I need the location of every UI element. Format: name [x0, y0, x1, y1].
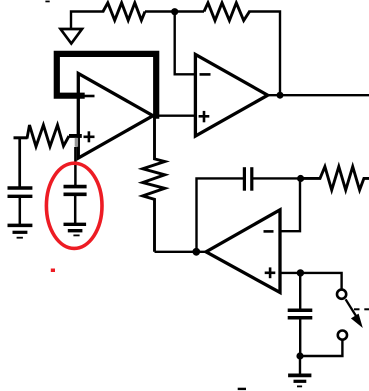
wire node A down to U2 inverting input: [175, 12, 195, 75]
wire U3 feedback (output up, across to C3): [197, 178, 244, 251]
wire U2 output to right edge: [268, 94, 369, 96]
switch dashed travel line: [354, 308, 369, 310]
node A junction dot: [171, 8, 178, 15]
input arrow (open triangle): [61, 29, 83, 44]
resistor R1: [103, 3, 145, 21]
capacitor C4: [288, 310, 313, 318]
U1 minus label: [83, 95, 95, 98]
red highlight ellipse: [46, 163, 102, 248]
resistor R4 left lead and tee: [14, 136, 28, 139]
switch S1 arm with arrowhead: [346, 299, 357, 317]
capacitor C2 (circled): [64, 187, 87, 195]
wire node E down to C4: [299, 273, 301, 310]
capacitor C1: [8, 188, 33, 196]
red stray mark: [51, 269, 55, 273]
wire R5 bottom to node C: [155, 251, 207, 253]
U3 plus label: [265, 267, 276, 278]
op-amp U2: [195, 54, 267, 136]
ground (circled): [64, 224, 87, 235]
wire C2 to ground: [74, 194, 77, 223]
wire R2 to U2 output node: [250, 12, 281, 96]
wire C4 to node F: [299, 318, 301, 356]
resistor R3: [301, 167, 369, 190]
node C (U3 output): [192, 248, 200, 256]
wire switch bottom to node F: [300, 340, 342, 356]
ground (bottom): [288, 375, 311, 386]
wire U3 plus input to node E: [280, 272, 300, 274]
wire C3 to node D: [253, 177, 301, 179]
wire plus node down to C2: [74, 147, 77, 187]
switch S1 top contact: [337, 290, 346, 299]
U1 plus label: [84, 131, 95, 142]
stray mark top-left: [45, 1, 49, 3]
thick feedback wire (U1 output to inverting input): [57, 54, 156, 116]
resistor R5 (vertical) with leads: [143, 116, 165, 252]
grey wire stub below plus input: [75, 138, 78, 147]
op-amp U1: [78, 73, 153, 158]
node F junction dot: [296, 352, 303, 359]
U2 minus label: [200, 73, 211, 76]
op-amp U3 (points left): [206, 210, 280, 293]
node B (U2 output): [277, 92, 284, 99]
U2 plus label: [199, 111, 210, 122]
wire input riser and top-left segment: [71, 12, 103, 30]
stray mark bottom: [238, 388, 246, 390]
junction blob at U1 plus input: [69, 134, 82, 138]
wire C1 to ground: [19, 196, 22, 224]
node D junction dot: [297, 175, 304, 182]
wire R1 to R2: [145, 10, 204, 12]
wire node F to ground: [299, 356, 301, 374]
U3 minus label: [264, 230, 274, 233]
switch S1 bottom contact: [338, 331, 347, 340]
wire tee down to C1: [18, 138, 21, 188]
wire U1 output to U2 plus input: [153, 114, 195, 116]
wire U3 inverting input to node D: [280, 178, 300, 231]
capacitor C3: [244, 167, 251, 191]
ground (left): [8, 225, 33, 237]
resistor R4: [27, 125, 69, 147]
node E junction dot: [297, 269, 304, 276]
resistor R2: [204, 3, 250, 21]
wire node E to switch top contact: [300, 273, 341, 290]
